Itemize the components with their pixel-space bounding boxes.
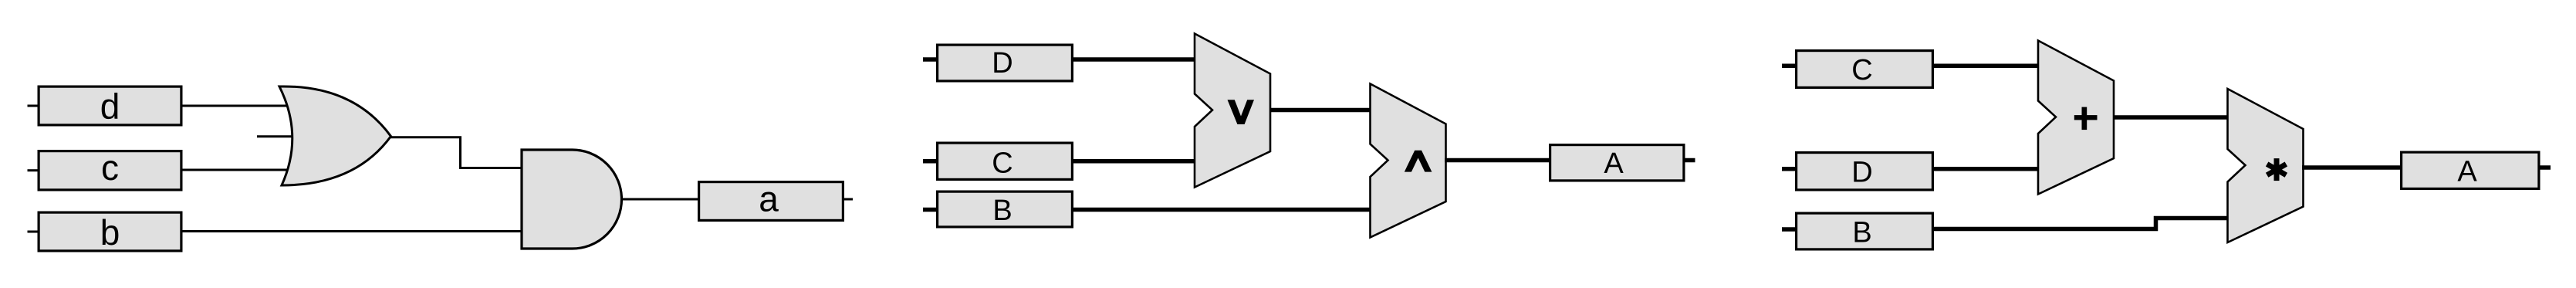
wire B to times node with jog: [1932, 219, 2229, 229]
wire stub input D: [1782, 167, 1795, 171]
wire stub input d: [28, 105, 39, 107]
wire AND node to output box A: [1445, 158, 1550, 163]
input box c: [39, 151, 181, 190]
wire stub output A: [1685, 158, 1695, 163]
label v of node U1: [1228, 100, 1255, 124]
wire D to plus node: [1932, 167, 2039, 171]
wire D to OR node: [1073, 57, 1195, 62]
input box D: [1797, 153, 1933, 190]
input box b: [39, 212, 181, 251]
svg-text:a: a: [759, 179, 779, 219]
svg-text:A: A: [1604, 147, 1624, 180]
wire plus node to times node: [2113, 115, 2229, 120]
wire stub output A: [2541, 165, 2551, 170]
OR gate: [279, 86, 391, 185]
wire B to AND node: [1073, 208, 1371, 212]
input box D: [938, 45, 1073, 81]
label plus of node U3 vertical bar: [2082, 107, 2088, 130]
svg-text:D: D: [1851, 157, 1872, 189]
AND gate: [522, 150, 622, 249]
svg-text:D: D: [992, 47, 1012, 80]
input box C: [938, 143, 1073, 179]
output box A: [2402, 152, 2539, 188]
svg-text:B: B: [1852, 217, 1871, 249]
svg-text:c: c: [101, 147, 119, 188]
TIMES operator node U4: [2228, 89, 2304, 242]
wire OR gate to AND gate: [390, 137, 522, 168]
wire stub input b: [28, 231, 39, 233]
wire stub input B: [1782, 227, 1795, 232]
wire stub input B: [923, 208, 936, 212]
svg-text:d: d: [100, 86, 120, 127]
wire times node to output box A: [2302, 165, 2401, 170]
wire stub output a: [844, 198, 854, 201]
svg-text:b: b: [100, 212, 120, 252]
label asterisk of node U4 falling diagonal stroke: [2267, 164, 2287, 174]
wire stub input D: [923, 57, 936, 62]
input box C: [1797, 51, 1933, 88]
wire C to plus node: [1932, 63, 2039, 68]
OR operator node U1 (v): [1195, 34, 1270, 188]
svg-text:B: B: [992, 195, 1012, 227]
label asterisk of node U4 vertical stroke: [2274, 158, 2280, 181]
PLUS operator node U3: [2038, 41, 2114, 195]
svg-text:C: C: [1851, 54, 1872, 86]
input box B: [1797, 213, 1933, 249]
wire C to OR node: [1073, 159, 1195, 164]
wire stub input C: [923, 159, 936, 164]
svg-text:C: C: [992, 147, 1012, 180]
output box A: [1550, 145, 1684, 181]
AND operator node U2 (caret): [1371, 84, 1446, 238]
svg-text:A: A: [2457, 156, 2477, 188]
wire stub input c: [28, 169, 39, 171]
wire stub middle input of OR gate: [257, 135, 294, 137]
wire b to AND gate: [181, 230, 522, 232]
wire d to OR gate: [181, 105, 288, 107]
label plus of node U3 horizontal bar: [2074, 115, 2098, 120]
input box B: [938, 191, 1073, 227]
output box a: [699, 182, 843, 221]
wire stub input C: [1782, 63, 1795, 68]
wire c to OR gate: [181, 169, 288, 171]
wire AND gate to output box a: [622, 198, 698, 201]
label caret of node U2: [1405, 151, 1432, 172]
input box d: [39, 86, 181, 125]
wire OR node to AND node: [1269, 108, 1371, 113]
label asterisk of node U4 rising diagonal stroke: [2267, 164, 2287, 174]
